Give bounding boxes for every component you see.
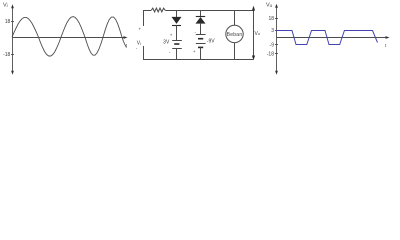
wire load top — [234, 11, 236, 26]
input plot x-axis t — [13, 36, 128, 48]
output clipped waveform Vo (blue) — [276, 31, 378, 45]
svg-text:Vo: Vo — [255, 31, 261, 37]
svg-text:-: - — [195, 29, 197, 34]
svg-text:+: + — [170, 32, 173, 37]
diode D2 (pointing up) — [196, 17, 206, 24]
svg-text:3V: 3V — [163, 40, 170, 46]
svg-text:Vi: Vi — [3, 3, 8, 9]
output plot x-axis t — [277, 36, 390, 48]
svg-text:-9: -9 — [270, 42, 275, 48]
wire top-left corner to resistor — [144, 11, 152, 27]
output plot y-axis Vo — [275, 4, 278, 75]
diode D1 (pointing down) — [172, 17, 182, 26]
svg-text:-18: -18 — [3, 52, 10, 58]
svg-text:18: 18 — [268, 16, 274, 22]
Vo measurement line with arrows — [252, 6, 255, 61]
svg-text:-18: -18 — [267, 52, 274, 58]
svg-text:Beban: Beban — [227, 32, 243, 38]
output plot tick -9 — [270, 42, 278, 48]
svg-text:t: t — [385, 43, 387, 48]
svg-text:Vo: Vo — [266, 3, 273, 9]
battery B2 -9V — [196, 35, 206, 48]
load (Beban) circle — [226, 25, 243, 42]
input plot tick +18 — [5, 19, 14, 25]
input plot tick -18 — [3, 52, 14, 58]
wire B1 to bottom — [176, 49, 178, 60]
svg-text:3: 3 — [271, 28, 274, 34]
output plot tick 18 — [268, 16, 278, 22]
svg-text:Vi: Vi — [137, 41, 141, 47]
svg-text:+: + — [193, 49, 196, 54]
input sine wave Vi — [12, 17, 127, 56]
input plot y-axis Vi — [11, 4, 14, 75]
resistor R — [151, 8, 165, 12]
svg-text:-9V: -9V — [207, 39, 215, 45]
wire D1 to battery B1 — [176, 26, 178, 41]
wire D1 branch top — [176, 11, 178, 18]
svg-text:-: - — [169, 50, 171, 55]
wire load bottom — [234, 43, 236, 60]
battery B1 3V — [172, 41, 182, 49]
wire B2 to bottom — [200, 47, 202, 59]
output plot tick -18 — [267, 52, 278, 58]
wire resistor to Vo top — [165, 10, 253, 12]
svg-text:18: 18 — [5, 19, 11, 25]
wire bottom-left corner — [144, 46, 254, 60]
wire D2 to battery B2 — [200, 24, 202, 35]
output plot tick 3 — [271, 28, 278, 34]
wire D2 branch top — [200, 11, 202, 17]
svg-text:+: + — [139, 27, 142, 32]
